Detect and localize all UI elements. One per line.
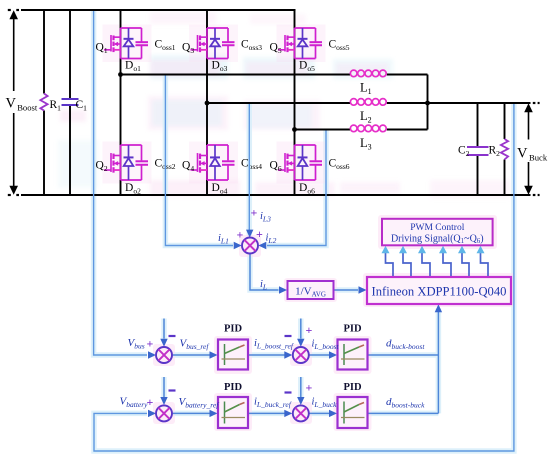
wire iL_boost junction to PID2 <box>309 354 329 356</box>
minus sign V_battery_ref <box>169 389 176 391</box>
wire Q2 cell frame <box>120 145 122 180</box>
capacitor Coss1 <box>136 41 149 43</box>
svg-text:Infineon XDPP1100-Q040: Infineon XDPP1100-Q040 <box>372 285 507 299</box>
inductor L1 <box>350 70 386 77</box>
wire Vavg to controller <box>334 289 359 291</box>
minus sign i_L_boost <box>285 335 292 337</box>
wire iL3 sense <box>248 104 250 230</box>
svg-text:Buck: Buck <box>529 153 548 163</box>
wire Q6 cell frame <box>294 145 296 180</box>
wire top rail V_Boost+ <box>21 9 296 11</box>
capacitor Coss6 <box>310 160 323 162</box>
svg-text:PWM Control: PWM Control <box>410 223 464 233</box>
svg-text:L3: L3 <box>360 136 372 152</box>
wire V_battery_ref input <box>163 377 165 397</box>
wire gate drive 2 <box>403 252 411 277</box>
svg-text:PID: PID <box>343 324 362 335</box>
svg-text:iL3: iL3 <box>260 211 271 224</box>
inductor L3 <box>350 125 386 132</box>
wire PID3 to iL_buck junction <box>248 412 285 414</box>
svg-text:Vbus: Vbus <box>128 337 145 351</box>
wire output rail V_Buck+ <box>428 102 531 104</box>
svg-text:+: + <box>237 228 244 242</box>
svg-text:R2: R2 <box>489 145 501 159</box>
wire i_L_buck input <box>300 377 302 397</box>
wire leg 2 <box>206 10 208 195</box>
svg-text:R1: R1 <box>50 99 62 113</box>
wire gate drive 3 <box>422 252 430 277</box>
node leg1 midpoint <box>118 72 123 77</box>
diode Do1 <box>124 28 134 59</box>
svg-text:PID: PID <box>224 324 243 335</box>
wire V_bus_ref input <box>163 319 165 339</box>
svg-text:PID: PID <box>224 382 243 393</box>
summing junction i_L_boost <box>293 347 309 363</box>
block Infineon XDPP1100-Q040 <box>367 277 511 304</box>
svg-text:PID: PID <box>343 382 362 393</box>
svg-text:+: + <box>306 323 313 337</box>
wire Q3 cell frame <box>206 28 208 59</box>
svg-text:iL: iL <box>260 279 267 292</box>
wire gate drive 5 <box>462 252 469 277</box>
svg-text:+: + <box>306 381 313 395</box>
wire C1 branch <box>69 10 71 98</box>
resistor R1 <box>40 94 47 111</box>
wire leg2 midpoint to L2 <box>207 102 350 104</box>
wire iL1 sense <box>165 76 233 246</box>
svg-text:Coss1: Coss1 <box>155 39 176 53</box>
capacitor Coss2 <box>136 160 149 162</box>
svg-text:+: + <box>147 337 154 351</box>
wire Q5 cell frame <box>294 28 296 59</box>
node leg3 midpoint <box>292 127 297 132</box>
wire i_L_boost input <box>300 319 302 339</box>
wire C2 branch <box>477 103 479 146</box>
minus sign V_bus_ref <box>169 335 176 337</box>
transistor Q4 <box>191 153 208 173</box>
wire iL_buck junction to PID4 <box>309 412 329 414</box>
svg-text:V: V <box>6 96 17 112</box>
transistor Q2 <box>104 153 121 173</box>
svg-text:Driving Signal(Q1~Q6): Driving Signal(Q1~Q6) <box>391 234 484 246</box>
svg-text:dboost-buck: dboost-buck <box>386 396 425 410</box>
diode Do4 <box>210 145 220 180</box>
wire V_battery sense <box>94 104 514 451</box>
svg-text:Vbattery_ref: Vbattery_ref <box>179 396 220 410</box>
minus sign i_L_buck <box>285 391 292 393</box>
svg-text:iL_buck_ref: iL_buck_ref <box>254 397 292 410</box>
wire Q1 cell frame <box>120 28 122 59</box>
inductor L2 <box>350 99 386 106</box>
svg-text:Vbus_ref: Vbus_ref <box>180 338 210 352</box>
svg-text:+: + <box>147 395 154 409</box>
summing junction V_battery <box>156 405 172 421</box>
block 1/Vavg <box>288 281 334 299</box>
wire leg 3 <box>294 10 296 195</box>
voltage arrow V_Boost <box>13 18 15 92</box>
svg-text:iL1: iL1 <box>218 233 229 246</box>
svg-text:+: + <box>251 206 258 220</box>
block PWM Control <box>382 219 493 246</box>
summing junction iL total <box>242 238 258 254</box>
voltage arrow V_Buck <box>528 110 530 140</box>
wire V_bus sense <box>94 11 147 355</box>
diode Do3 <box>210 28 220 59</box>
transistor Q5 <box>278 35 295 52</box>
svg-text:iL_boost_ref: iL_boost_ref <box>254 338 294 351</box>
capacitor Coss5 <box>310 41 323 43</box>
wire PID1 to iL_boost junction <box>248 354 285 356</box>
svg-text:L2: L2 <box>360 109 372 125</box>
svg-text:Vbattery: Vbattery <box>120 396 149 410</box>
wire gate drive 1 <box>386 252 394 277</box>
svg-text:Coss5: Coss5 <box>329 39 350 53</box>
wire Vbattery junction to PID3 <box>172 412 210 414</box>
wire duty to controller <box>437 309 439 414</box>
wire leg1 midpoint to L1 <box>121 74 351 76</box>
PID block 3 (voltage loop buck) <box>218 397 248 428</box>
svg-text:+: + <box>256 227 263 241</box>
wire iL2 sense <box>267 131 326 246</box>
resistor R2 <box>501 139 508 160</box>
transistor Q3 <box>191 35 208 52</box>
capacitor Coss4 <box>222 160 235 162</box>
summing junction i_L_buck <box>293 405 309 421</box>
wire Q4 cell frame <box>206 145 208 180</box>
wire R1 branch <box>43 10 45 94</box>
wire d_boost-buck <box>367 412 438 414</box>
wire gate drive 4 <box>443 252 451 277</box>
summing junction V_bus <box>156 347 172 363</box>
wire Vbus junction to PID1 <box>172 354 210 356</box>
transistor Q6 <box>278 153 295 173</box>
node leg2 midpoint <box>205 101 210 106</box>
svg-text:Coss6: Coss6 <box>329 158 350 172</box>
wire d_buck-boost <box>367 354 438 356</box>
svg-text:C1: C1 <box>76 99 88 113</box>
svg-text:iL2: iL2 <box>266 233 277 246</box>
svg-text:Boost: Boost <box>17 103 38 113</box>
node inductor output junction <box>425 101 430 106</box>
svg-text:Do2: Do2 <box>125 182 141 196</box>
svg-text:iL_buck: iL_buck <box>312 397 338 410</box>
wire gate drive 6 <box>481 252 489 277</box>
wire leg3 midpoint to L3 <box>295 129 351 131</box>
PID block 4 (current loop buck) <box>338 397 368 428</box>
transistor Q1 <box>104 35 121 52</box>
svg-text:L1: L1 <box>360 81 372 97</box>
wire leg 1 <box>120 10 122 195</box>
svg-text:dbuck-boost: dbuck-boost <box>386 338 425 352</box>
wire bottom rail <box>21 194 531 196</box>
wire iL output <box>250 254 279 291</box>
capacitor C2 <box>467 146 489 148</box>
PID block 1 (voltage loop boost) <box>218 340 248 370</box>
diode Do6 <box>298 145 308 180</box>
capacitor Coss3 <box>222 41 235 43</box>
diode Do2 <box>124 145 134 180</box>
svg-text:Coss3: Coss3 <box>241 39 262 53</box>
diode Do5 <box>298 28 308 59</box>
wire R2 branch <box>504 103 506 139</box>
PID block 2 (current loop boost) <box>338 340 368 370</box>
svg-text:V: V <box>517 146 528 162</box>
capacitor C1 <box>62 98 79 100</box>
